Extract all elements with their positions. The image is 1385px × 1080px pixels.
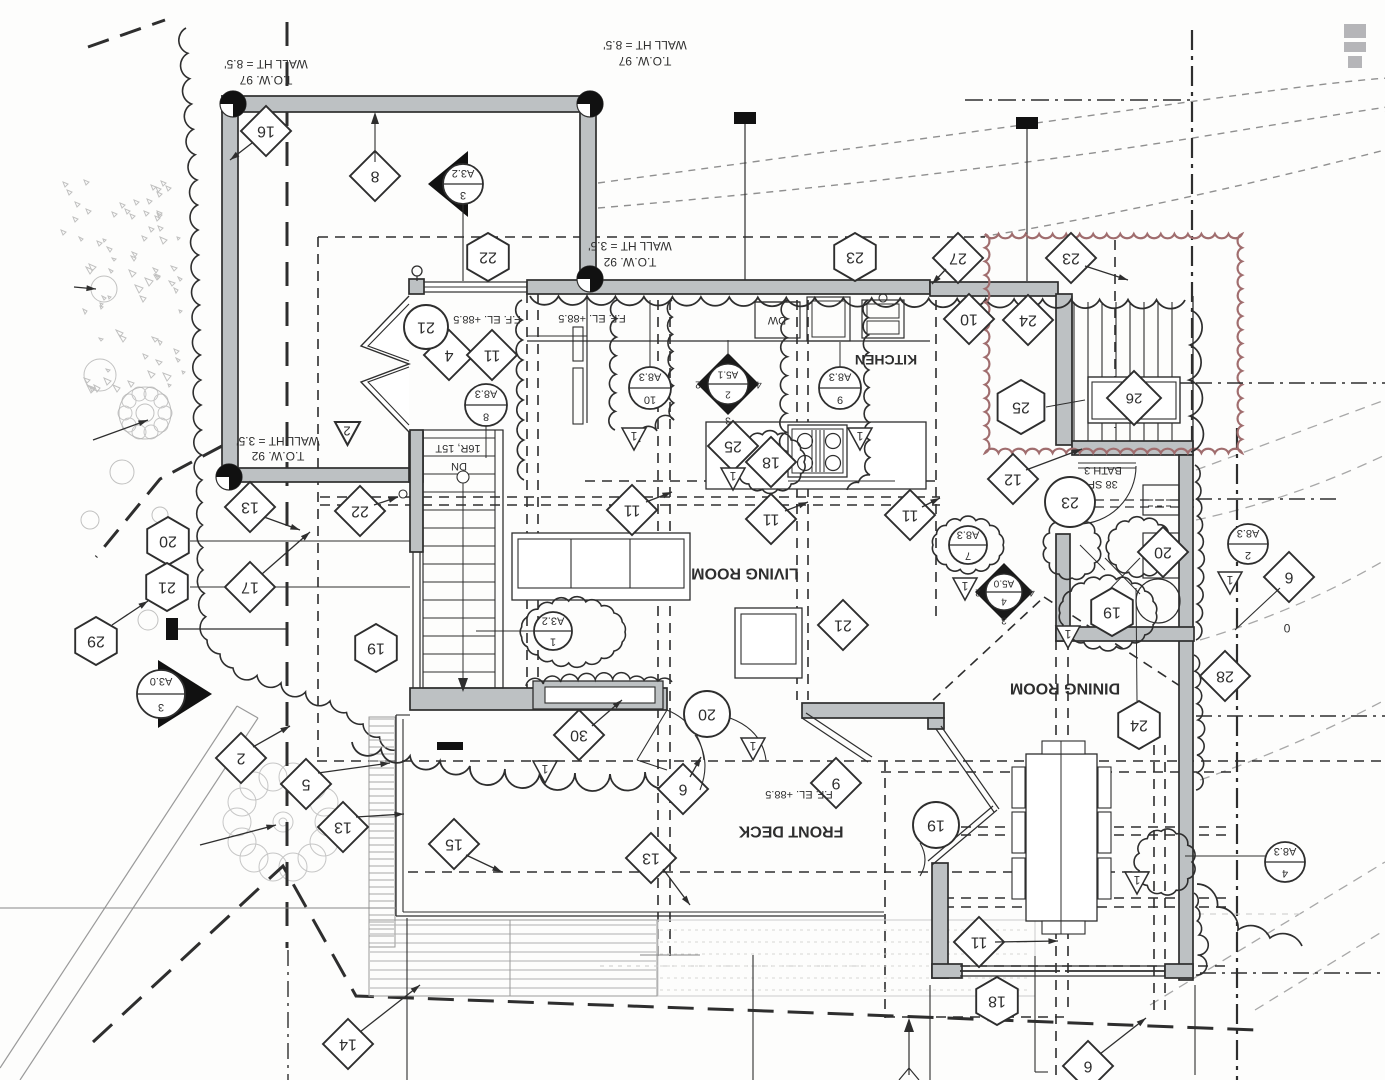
keynote hex 22 [467,233,509,281]
cloud band kitchen left [609,300,617,430]
svg-text:13: 13 [642,850,660,867]
detail tag 1 [1056,626,1080,648]
svg-text:A5.0: A5.0 [993,578,1014,589]
svg-text:1: 1 [961,579,968,593]
island [706,422,926,489]
keynote hex 29 [75,617,117,665]
svg-text:A8.3: A8.3 [957,529,980,541]
svg-text:28: 28 [1216,668,1234,685]
faint patio grid [660,930,1030,990]
deck lower edge lines [0,907,396,909]
keynote 17 [225,562,275,612]
leader 30 [592,700,622,726]
keynote 28 [1200,651,1250,701]
svg-text:26: 26 [1126,390,1143,407]
sofa [512,533,690,600]
leader 16 [230,143,252,160]
step arrow [908,1025,910,1075]
svg-text:17: 17 [241,579,259,596]
svg-text:16R, 15T: 16R, 15T [435,442,481,454]
svg-text:T.O.W. 97: T.O.W. 97 [239,73,292,87]
svg-text:F.F. EL. +88.5: F.F. EL. +88.5 [765,788,833,800]
svg-text:15: 15 [445,836,463,853]
section A3.2/3 [443,164,483,204]
detail tag 1 [1218,572,1242,594]
keynote 4 [424,330,474,380]
top-left room right wall [580,96,596,282]
column grid dashed lines [317,237,1385,1080]
leader 11d [995,938,1058,944]
svg-text:WALL HT = 8.5': WALL HT = 8.5' [224,57,308,71]
svg-text:WALL HT = 3.5': WALL HT = 3.5' [236,434,320,448]
lower steps hatch [370,925,656,988]
leader 17 [262,532,310,574]
section A5.0/4 [975,563,1033,621]
svg-text:1: 1 [630,429,637,443]
label circle 20 [684,691,730,737]
leader 13b [356,812,404,818]
leader 2 [253,726,290,747]
keynote hex 20 [147,517,189,565]
svg-text:F.F. EL. +88.5: F.F. EL. +88.5 [558,312,626,324]
dining sw corner [932,964,962,978]
svg-text:2: 2 [975,587,981,598]
svg-text:A8.3: A8.3 [475,388,498,400]
svg-text:24: 24 [1019,312,1037,329]
tree leader 3 [200,825,276,845]
keynote hex 19 [355,624,397,672]
svg-text:21: 21 [417,319,435,336]
cloud band kitchen mid [779,300,788,470]
keynote 24 [1003,295,1053,345]
svg-text:A8.3: A8.3 [829,371,852,383]
dashdot mid [1196,498,1340,500]
keynote 10 [944,294,994,344]
dining table [1026,754,1097,921]
entry header [423,282,527,292]
leader 13c [663,869,690,905]
tree canopy line [179,28,396,750]
post [734,112,756,124]
trees [61,180,185,647]
svg-text:21: 21 [158,579,176,596]
dashdot bottom [1200,972,1385,974]
svg-text:T.O.W. 92: T.O.W. 92 [251,449,304,463]
section A8.3/10 [629,367,671,409]
keynote 27 [933,233,983,283]
leader 12 [1026,449,1082,470]
svg-text:DINING ROOM: DINING ROOM [1010,680,1120,697]
door pivot [412,266,422,276]
keynote 11 [885,490,935,540]
svg-text:2: 2 [1245,549,1251,561]
tree leader 2 [93,420,148,440]
driveway [0,706,237,1068]
contour lines [598,78,1385,183]
stairs [423,430,503,692]
keynote 8 [350,151,400,201]
keynote 6 [1063,1041,1113,1080]
chair right [1098,812,1111,853]
svg-text:T.O.W. 97: T.O.W. 97 [618,54,671,68]
svg-text:A8.3: A8.3 [1237,527,1260,539]
detail tag 1 [1125,872,1149,894]
svg-text:1: 1 [856,429,863,443]
svg-text:22: 22 [479,249,497,266]
cabinet tall 1 [573,327,583,361]
svg-text:2: 2 [236,750,245,767]
svg-text:23: 23 [1061,494,1079,511]
detail tag 1 [953,578,977,600]
svg-text:WALL HT = 8.5': WALL HT = 8.5' [603,38,687,52]
dishwasher [755,302,800,338]
chair right [1098,767,1111,808]
leader 13a [264,517,300,530]
shower x [1105,558,1140,594]
keynote 25 [708,421,758,471]
svg-text:4: 4 [444,347,453,364]
bath top wall [1072,441,1193,455]
svg-text:11: 11 [484,347,501,364]
kitchen counters [527,340,930,342]
keynote 6 [1264,552,1314,602]
svg-text:6: 6 [1284,569,1293,586]
svg-text:A3.0: A3.0 [150,675,173,687]
entry wall block [409,279,424,294]
svg-text:8: 8 [370,168,379,185]
keynote hex 25 [998,380,1045,434]
cloud counter right [610,300,617,480]
leader 27 [932,269,946,284]
svg-text:BATH 3: BATH 3 [1084,464,1122,476]
26 label box [1088,377,1180,423]
svg-text:5: 5 [301,776,310,793]
keynote 30 [554,710,604,760]
keynote 26 [1107,371,1161,425]
svg-text:4: 4 [1029,587,1035,598]
match line [1191,30,1193,460]
wall corner marker entry [577,266,603,292]
chair left [1012,858,1025,899]
cloud bath left [1043,517,1100,580]
cabinet tall 2 [573,368,583,424]
svg-text:25: 25 [1012,399,1030,416]
leader 15 [466,855,502,872]
section A8.3/7 [949,526,987,564]
svg-text:1: 1 [1226,573,1233,587]
leader 6c [1235,588,1280,630]
keynote 20 [1138,527,1188,577]
section A8.3/2 [1228,524,1268,564]
bay window [361,296,409,432]
keynote 11 [954,917,1004,967]
svg-text:20: 20 [698,706,716,723]
leader 5 [318,761,390,773]
svg-text:A3.2: A3.2 [542,615,565,627]
svg-text:20: 20 [159,533,177,550]
svg-text:4: 4 [1282,867,1288,879]
svg-text:4: 4 [756,379,762,390]
wall corner marker [577,91,603,117]
chair left [1012,767,1025,808]
cloud bottom right [1197,884,1302,946]
living door leaves [802,718,868,762]
svg-text:13: 13 [241,499,259,516]
keynote hex 19 [1091,588,1133,636]
svg-text:11: 11 [763,511,780,528]
svg-text:14: 14 [339,1036,357,1053]
keynote hex 21 [146,563,188,611]
dining se corner [1165,964,1193,978]
keynote 2 [216,733,266,783]
svg-text:23: 23 [846,249,864,266]
svg-text:11: 11 [624,502,641,519]
svg-text:10: 10 [960,311,978,328]
detail tag 1 [622,428,646,450]
cloud above window seat [526,673,672,686]
keynote 16 [241,106,291,156]
kitchen top wall [527,280,930,294]
section A8.3/4 [1265,842,1305,882]
svg-text:19: 19 [367,640,385,657]
dining west wall [932,863,948,978]
setback dashed line [286,22,289,948]
cloud a8.3-7 [932,516,1003,574]
svg-text:23: 23 [1062,250,1080,267]
svg-text:19: 19 [927,817,945,834]
deck steps left hatch [369,719,394,943]
property line [88,20,165,47]
svg-text:38 SF: 38 SF [1088,478,1118,490]
svg-text:25: 25 [724,438,742,455]
section A3.0/3 [137,670,185,718]
post 2 [1016,117,1038,129]
keynote 5 [281,759,331,809]
leader 11c [922,498,940,507]
leader 11a [646,492,672,502]
hex21 leader [190,586,410,588]
svg-text:10: 10 [644,394,656,406]
svg-text:12: 12 [1004,471,1022,488]
svg-text:13: 13 [334,819,352,836]
svg-text:T.O.W. 92: T.O.W. 92 [603,255,656,269]
front wall stub [928,718,944,729]
chair left [1012,812,1025,853]
svg-text:1: 1 [550,636,556,648]
cloud vertical entry [516,300,524,480]
svg-text:A8.3: A8.3 [1274,845,1297,857]
revision cloud [985,234,1242,453]
cloud 18 [735,431,805,494]
toilet [1143,533,1179,578]
keynote hex 23 [834,233,876,281]
top-left room bottom wall [222,468,412,482]
svg-text:6: 6 [1083,1058,1092,1075]
dining door leaf [936,729,994,812]
svg-text:A3.2: A3.2 [452,167,475,179]
svg-text:2: 2 [343,424,350,439]
tree leader [74,285,96,291]
deck top wall [930,282,1058,296]
svg-text:A8.3: A8.3 [639,371,662,383]
gate mark [166,618,178,640]
svg-text:1: 1 [1133,873,1140,887]
svg-text:A5.1: A5.1 [717,369,738,380]
vanity [1143,485,1179,515]
fridge [807,297,850,341]
svg-text:20: 20 [1154,544,1172,561]
leader 6b [1100,1018,1146,1054]
keynote 11 [467,330,517,380]
faint line [600,965,880,967]
svg-text:0: 0 [1283,621,1290,635]
detail tag 1 [721,468,745,490]
keynote 9 [811,758,861,808]
wall corner marker [216,464,242,490]
bath3 door arc [1078,466,1136,524]
detail tag 2 triangle [335,422,360,445]
match line 2 [1236,428,1238,1080]
keynote 6 [658,764,708,814]
circle 23 bath [1045,477,1095,527]
detail tag 1 [533,761,557,783]
bay south wall [409,432,423,482]
svg-text:24: 24 [1130,717,1148,734]
keynote 18 [746,437,796,487]
detail tag 1 [848,428,872,450]
top-left room left wall [222,96,238,482]
leader 23d [1085,266,1128,280]
keynote 21 [818,600,868,650]
svg-text:18: 18 [988,993,1006,1010]
cloud east window [1134,829,1195,895]
svg-text:WALL HT = 3.5': WALL HT = 3.5' [588,239,672,253]
chair square [735,608,802,678]
watermark [1344,24,1366,68]
hearth mark [437,742,463,750]
cloud 19hex [1059,575,1157,651]
svg-text:19: 19 [1103,604,1121,621]
keynote hex 18 [976,977,1018,1025]
svg-text:KITCHEN: KITCHEN [855,352,917,368]
wall corner marker [220,91,246,117]
label circle 21 [404,305,448,349]
svg-text:22: 22 [351,503,369,520]
section A8.3/9 [819,367,861,409]
living front wall [802,703,944,718]
leader 14 [360,985,420,1032]
svg-text:FRONT DECK: FRONT DECK [738,823,843,840]
bath bottom wall [1056,627,1194,641]
leader 25-26 [1046,400,1085,407]
svg-text:21: 21 [834,617,852,634]
stair left wall [410,430,423,552]
cloud east of wall [1195,465,1204,640]
svg-text:F.F. EL. +88.5: F.F. EL. +88.5 [453,313,521,325]
dashdot mid2 [1196,715,1385,717]
sink [862,300,904,338]
svg-text:1: 1 [749,739,756,753]
leader 11b [785,502,808,511]
keynote 23 [1046,233,1096,283]
svg-text:1: 1 [541,762,548,776]
keynote 12 [988,454,1038,504]
keynote 11 [607,485,657,535]
keynote hex 24 [1118,701,1160,749]
svg-text:1: 1 [1064,627,1071,641]
svg-text:8: 8 [483,411,489,423]
cloud bath right [1106,517,1173,578]
svg-text:29: 29 [87,633,105,650]
keynote 15 [429,819,479,869]
cloud window seat [352,742,680,791]
svg-text:2: 2 [725,389,731,400]
living south wall [410,688,667,710]
keynote 13 [318,802,368,852]
svg-text:16: 16 [257,123,275,140]
svg-text:1: 1 [729,469,736,483]
section A5.1/2 [697,353,759,415]
leader 6a [690,757,701,777]
keynote 13 [626,833,676,883]
chair right [1098,858,1111,899]
range [788,425,847,477]
leader 22b [374,497,398,505]
svg-text:DN: DN [451,460,467,472]
svg-text:3: 3 [158,701,164,713]
keynote 14 [323,1019,373,1069]
kitchen right wall [1056,294,1072,445]
svg-text:11: 11 [902,507,919,524]
cloud a3.2-1 [520,597,625,668]
svg-text:3: 3 [1001,615,1007,626]
svg-text:30: 30 [570,727,588,744]
label circle 19 [913,802,959,848]
leader 29 [112,601,148,625]
svg-text:18: 18 [762,454,780,471]
cloud along kitchen wall [530,296,1185,309]
keynote 22 [335,486,385,536]
svg-text:27: 27 [949,250,967,267]
svg-text:6: 6 [678,781,687,798]
section A3.2/1 [534,612,572,650]
svg-text:2: 2 [695,379,701,390]
svg-text:7: 7 [965,550,971,562]
svg-text:11: 11 [971,934,988,951]
detail tag 1 [741,738,765,760]
east wall [1179,455,1193,980]
svg-text:4: 4 [1001,596,1007,607]
window seat [533,681,663,709]
top-left room top wall [222,96,598,112]
hex20 leader [190,540,410,542]
keynote 13 [225,482,275,532]
svg-text:LIVING ROOM: LIVING ROOM [691,565,799,582]
sliding door [960,965,1165,967]
section A8.3/8 [465,384,507,426]
front deck outline [395,715,397,916]
svg-text:9: 9 [837,394,843,406]
large tree [118,387,343,881]
bath left wall [1056,534,1070,641]
svg-text:3: 3 [460,189,466,201]
dashdot top [965,99,1190,101]
deck boards [1074,302,1172,441]
keynote 11 [746,494,796,544]
